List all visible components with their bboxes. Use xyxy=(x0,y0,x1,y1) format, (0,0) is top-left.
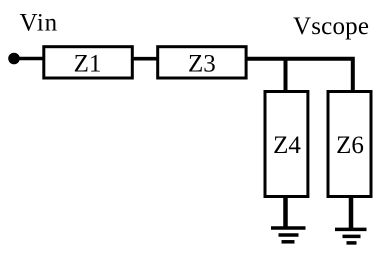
node Vin input terminal (dot) xyxy=(8,53,20,65)
impedance Z3 xyxy=(158,47,246,78)
node junction: wire branch down to Z4 xyxy=(284,59,288,92)
wire Z3 to Vscope node and down to Z6 xyxy=(246,59,353,92)
svg-text:Z3: Z3 xyxy=(188,50,216,77)
impedance Z1 xyxy=(44,47,133,78)
svg-text:Vin: Vin xyxy=(20,10,58,37)
svg-text:Z6: Z6 xyxy=(336,132,364,159)
wire Z4 to ground xyxy=(283,196,288,228)
impedance Z4 xyxy=(265,92,308,197)
ground under Z6 xyxy=(335,229,367,243)
svg-text:Z4: Z4 xyxy=(273,132,301,159)
wire Z1 to Z3 xyxy=(132,57,158,61)
svg-text:Vscope: Vscope xyxy=(293,13,369,40)
impedance Z6 xyxy=(328,92,371,197)
svg-text:Z1: Z1 xyxy=(74,50,102,77)
ground under Z4 xyxy=(271,228,306,242)
wire input dot to Z1 xyxy=(14,57,44,61)
wire Z6 to ground xyxy=(349,196,354,229)
